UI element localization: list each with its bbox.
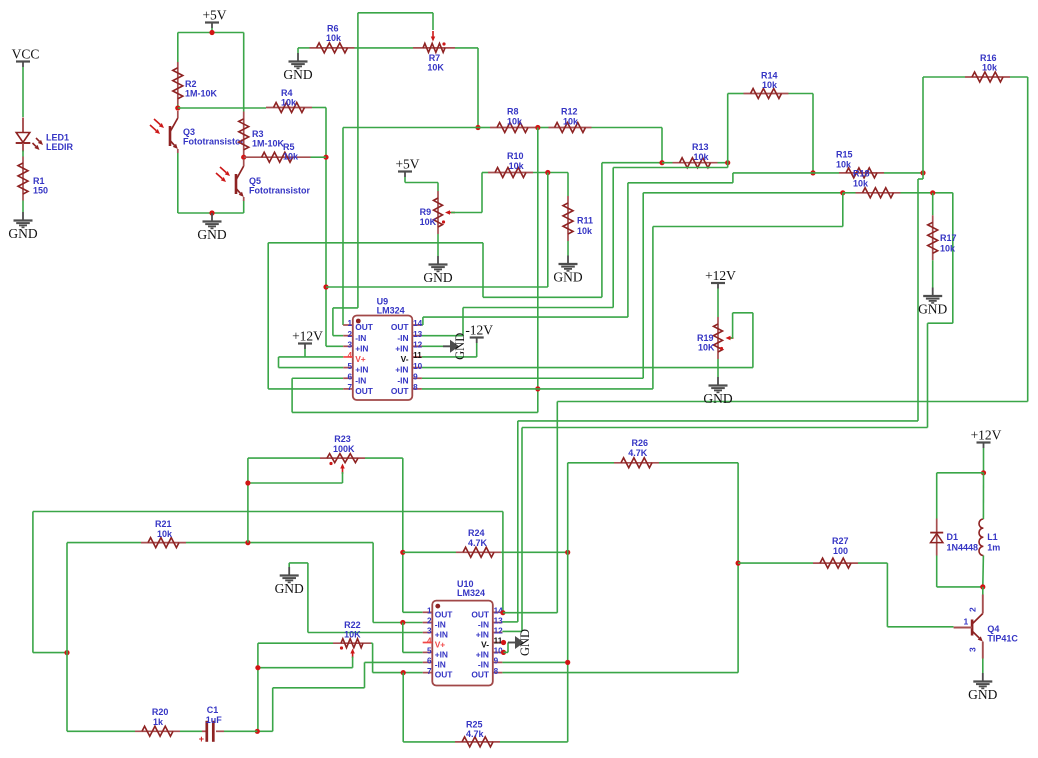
svg-text:+IN: +IN [435,630,448,640]
ground [197,213,226,242]
wire [983,448,985,473]
svg-text:GND: GND [518,629,532,656]
junction [475,125,480,130]
wire [437,234,439,256]
svg-text:10k: 10k [762,80,778,90]
svg-text:Fototransistor: Fototransistor [249,186,310,196]
junction [725,160,730,165]
LED LED1 [16,118,43,152]
wire [567,173,569,197]
U10 pin 8 OUT [471,667,502,680]
svg-text:OUT: OUT [435,609,454,619]
svg-text:LM324: LM324 [457,588,485,598]
svg-text:6: 6 [427,657,432,666]
transistor Q3 [150,111,178,153]
junction [400,550,405,555]
junction [736,561,741,566]
junction [323,284,328,289]
resistor R12 [549,107,592,133]
svg-text:1: 1 [964,617,969,627]
wire [738,562,813,564]
svg-text:1: 1 [427,607,432,616]
wire [451,173,488,213]
resistor R2 [173,62,218,105]
junction [659,160,664,165]
wire [371,643,423,672]
wire [297,48,299,53]
net VCC [12,47,40,68]
wire [567,463,569,742]
wire [422,345,443,347]
U10 pin 3 +IN [423,627,448,640]
svg-text:R21: R21 [155,519,172,529]
wire [718,162,728,164]
wire [478,127,549,129]
U10 pin 6 -IN [423,657,446,670]
junction [565,660,570,665]
junction [545,170,550,175]
svg-text:10k: 10k [982,63,998,73]
U10 pin 9 -IN [478,657,503,670]
label LED1 [46,133,74,153]
svg-text:1uF: 1uF [206,715,223,725]
svg-text:GND: GND [968,687,997,702]
svg-text:R12: R12 [561,107,578,117]
trimmer R23 [320,434,365,474]
wire [365,458,423,612]
junction [930,190,935,195]
wire [298,47,310,49]
U9 pin 3 +IN [343,341,368,354]
wire [312,108,343,347]
U9 pin 2 -IN [343,330,366,343]
svg-text:4: 4 [427,637,432,646]
svg-text:-IN: -IN [435,660,446,670]
svg-text:R8: R8 [507,107,519,117]
ground [918,288,947,317]
wire [67,730,135,732]
wire [248,458,320,542]
svg-text:R23: R23 [334,434,351,444]
junction [401,670,406,675]
svg-text:+12V: +12V [292,329,323,344]
wire [403,623,423,653]
wire [567,241,569,256]
wire [355,47,414,49]
svg-text:10k: 10k [577,226,593,236]
junction [245,480,250,485]
svg-text:OUT: OUT [471,609,490,619]
svg-text:10k: 10k [326,33,342,43]
wire [422,343,477,357]
svg-text:R10: R10 [507,151,524,161]
svg-text:GND: GND [283,67,312,82]
wire [717,289,719,318]
net +12V [971,428,1002,449]
resistor R4 [266,88,312,113]
wire [982,473,985,587]
U10 pin 14 OUT [471,607,503,620]
wire [422,163,728,336]
resistor R3 [239,112,285,158]
capacitor C1 [199,705,224,744]
resistor R26 [614,438,659,468]
svg-text:-IN: -IN [355,333,366,343]
junction [501,650,506,655]
trimmer R22 [333,620,371,658]
svg-text:V-: V- [401,354,409,364]
svg-text:+IN: +IN [435,650,448,660]
svg-text:150: 150 [33,186,48,196]
svg-text:10K: 10K [427,63,444,73]
svg-text:GND: GND [453,333,467,360]
op-amp U9 [353,316,413,401]
junction [64,650,69,655]
svg-text:-IN: -IN [355,375,366,385]
junction [209,30,214,35]
label U10 [457,579,485,598]
net -12V [465,323,493,344]
wire [789,94,814,173]
svg-text:R6: R6 [327,24,339,34]
svg-text:R9: R9 [420,207,432,217]
svg-text:R11: R11 [577,216,593,226]
ground [703,377,732,406]
svg-text:1M-10K: 1M-10K [185,89,218,99]
svg-text:4.7k: 4.7k [466,729,485,739]
wire [843,192,856,194]
svg-text:8: 8 [413,383,418,392]
svg-text:GND: GND [703,391,732,406]
svg-text:4.7K: 4.7K [468,538,488,548]
wire [500,741,568,743]
resistor R21 [141,519,186,548]
svg-text:GND: GND [423,270,452,285]
svg-text:-IN: -IN [397,375,408,385]
trimmer R19 [697,317,734,359]
wire [224,730,257,732]
U9 pin 8 OUT [391,383,422,396]
U10 pin 1 OUT [423,607,454,620]
wire [311,156,327,158]
wire [405,177,438,191]
wire [177,105,179,109]
wire [422,193,843,389]
svg-text:100: 100 [833,546,848,556]
wire [67,542,141,544]
net +5V [202,8,226,29]
U9 pin 14 OUT [391,319,423,332]
wire [503,612,557,614]
svg-text:3: 3 [427,627,432,636]
svg-text:C1: C1 [207,705,219,715]
label Q3 [183,127,244,147]
svg-text:Q3: Q3 [183,127,195,137]
svg-text:Q4: Q4 [987,624,999,634]
svg-text:Fototransistor: Fototransistor [183,137,244,147]
wire [243,33,245,112]
svg-text:OUT: OUT [435,670,454,680]
svg-text:R20: R20 [152,707,169,717]
wire [289,563,423,633]
svg-text:-IN: -IN [478,620,489,630]
svg-text:V+: V+ [435,640,446,650]
svg-text:11: 11 [413,351,422,360]
svg-text:L1: L1 [987,532,998,542]
wire [22,151,24,157]
junction [175,105,180,110]
svg-text:OUT: OUT [355,386,374,396]
svg-text:Q5: Q5 [249,176,261,186]
label Q4 [987,624,1018,644]
resistor R6 [310,24,355,53]
U9 pin 5 +IN [343,362,368,375]
wire [178,28,244,33]
junction [241,155,246,160]
svg-text:R4: R4 [281,88,293,98]
wire [22,201,24,213]
wire [177,33,179,63]
svg-text:+IN: +IN [395,365,408,375]
wire [422,313,753,368]
wire [502,661,567,663]
junction [323,155,328,160]
svg-text:R27: R27 [832,536,849,546]
transistor Q5 [216,159,244,201]
svg-text:+IN: +IN [355,365,368,375]
ground [283,53,312,82]
wire [178,153,244,213]
svg-text:10k: 10k [509,161,525,171]
resistor R11 [563,196,593,241]
svg-text:2: 2 [347,330,352,339]
svg-text:9: 9 [413,372,418,381]
wire [455,48,478,128]
wire [592,128,663,163]
U9 pin 10 +IN [395,362,422,375]
svg-text:10k: 10k [694,152,710,162]
svg-text:1m: 1m [987,543,1000,553]
svg-text:-IN: -IN [435,620,446,630]
U10 pin 10 +IN [476,647,503,660]
junction [980,584,985,589]
svg-text:LED1: LED1 [46,133,69,143]
svg-text:+IN: +IN [476,630,489,640]
wire [268,163,662,389]
resistor R18 [853,169,901,198]
svg-text:10k: 10k [563,117,579,127]
wire [728,94,744,163]
svg-text:-IN: -IN [478,660,489,670]
svg-text:7: 7 [347,383,352,392]
svg-text:10: 10 [413,362,423,371]
wire [858,563,954,627]
svg-text:VCC: VCC [12,47,40,62]
wire [982,659,984,674]
junction [255,729,260,734]
svg-text:D1: D1 [947,532,959,542]
net +5V [395,157,419,178]
U9 pin 12 +IN [395,341,422,354]
U10 pin 13 -IN [478,617,503,630]
svg-text:10k: 10k [940,244,956,254]
wire [373,543,423,623]
svg-text:R17: R17 [940,233,957,243]
svg-text:R16: R16 [980,53,997,63]
wire [178,107,266,109]
wire [403,673,455,742]
U9 pin 1 OUT [343,319,374,332]
svg-text:GND: GND [275,581,304,596]
resistor R16 [965,53,1010,82]
U9 pin 9 -IN [397,372,422,385]
svg-text:13: 13 [494,617,504,626]
svg-text:R3: R3 [252,129,264,139]
svg-text:R25: R25 [466,720,483,730]
U9 pin 4 V+ [343,351,366,364]
svg-text:R19: R19 [697,333,714,343]
junction [400,620,405,625]
svg-text:+12V: +12V [971,428,1002,443]
inductor L1 [979,519,1000,556]
svg-text:R13: R13 [692,142,709,152]
U10 pin 12 +IN [476,627,503,640]
svg-text:R1: R1 [33,176,45,186]
resistor R25 [455,720,500,747]
U10 pin 2 -IN [423,617,446,630]
svg-text:1: 1 [347,319,352,328]
wire [937,556,983,587]
svg-text:5: 5 [427,647,432,656]
svg-text:+IN: +IN [395,343,408,353]
svg-text:10K: 10K [420,217,437,227]
svg-text:10k: 10k [853,179,869,189]
U10 pin 7 OUT [423,667,454,680]
junction [840,190,845,195]
wire [557,77,1027,613]
svg-text:R14: R14 [761,71,778,81]
wire [662,162,673,164]
wire [186,542,373,544]
wire [884,172,923,174]
svg-text:R24: R24 [468,528,485,538]
svg-text:10k: 10k [157,529,173,539]
wire [333,13,433,336]
svg-text:2: 2 [427,617,432,626]
wire [279,349,344,368]
svg-text:+IN: +IN [476,650,489,660]
ground [508,629,532,656]
wire [932,193,934,216]
wire [533,172,568,174]
wire [923,77,965,173]
svg-text:7: 7 [427,667,432,676]
junction [565,550,570,555]
ground [275,567,304,596]
wire [180,730,202,732]
wire [343,128,478,326]
svg-text:OUT: OUT [355,322,374,332]
junction [535,125,540,130]
U10 pin 4 V+ [423,637,446,650]
wire [502,672,738,674]
ground [553,256,582,285]
resistor R27 [813,536,858,568]
resistor R8 [490,107,535,133]
wire [22,67,24,117]
wire [258,657,353,668]
svg-text:12: 12 [494,627,504,636]
svg-text:1k: 1k [153,717,164,727]
junction [810,170,815,175]
wire [504,643,509,653]
svg-text:R26: R26 [632,438,649,448]
svg-text:2: 2 [968,607,978,612]
svg-text:10k: 10k [836,160,852,170]
wire [932,260,934,287]
U9 pin 7 OUT [343,383,374,396]
resistor R13 [673,142,718,168]
wire [258,643,333,731]
label U9 [377,297,405,316]
ground [443,333,467,360]
junction [209,210,214,215]
svg-text:OUT: OUT [391,386,410,396]
wire [501,551,568,553]
svg-text:6: 6 [347,372,352,381]
U10 pin 11 V- [481,637,503,650]
svg-text:1N4448: 1N4448 [947,543,979,553]
svg-text:-IN: -IN [397,333,408,343]
diode D1 [930,519,978,556]
svg-text:10K: 10K [698,343,715,353]
svg-text:9: 9 [494,657,499,666]
wire [659,463,738,673]
wire [643,192,843,194]
ground [8,212,37,241]
svg-text:TIP41C: TIP41C [987,634,1018,644]
svg-text:8: 8 [494,667,499,676]
wire [422,193,643,378]
svg-text:GND: GND [197,227,226,242]
svg-text:V-: V- [481,640,489,650]
svg-text:13: 13 [413,330,423,339]
label Q5 [249,176,310,196]
wire [326,173,548,288]
svg-text:4.7K: 4.7K [628,448,648,458]
wire [502,173,923,622]
svg-text:+12V: +12V [705,268,736,283]
svg-text:4: 4 [347,351,352,360]
svg-text:10k: 10k [507,117,523,127]
svg-text:OUT: OUT [471,670,490,680]
ground [968,673,997,702]
junction [981,470,986,475]
wire [537,128,539,413]
svg-text:3: 3 [968,647,978,652]
svg-text:R15: R15 [836,150,853,160]
svg-text:LEDIR: LEDIR [46,142,74,152]
U10 pin 5 +IN [423,647,448,660]
wire [502,193,952,632]
svg-text:LM324: LM324 [377,306,405,316]
svg-text:100K: 100K [333,444,355,454]
resistor R14 [744,71,789,99]
svg-text:OUT: OUT [391,322,410,332]
junction [501,640,506,645]
svg-text:GND: GND [918,302,947,317]
wire [292,378,538,412]
